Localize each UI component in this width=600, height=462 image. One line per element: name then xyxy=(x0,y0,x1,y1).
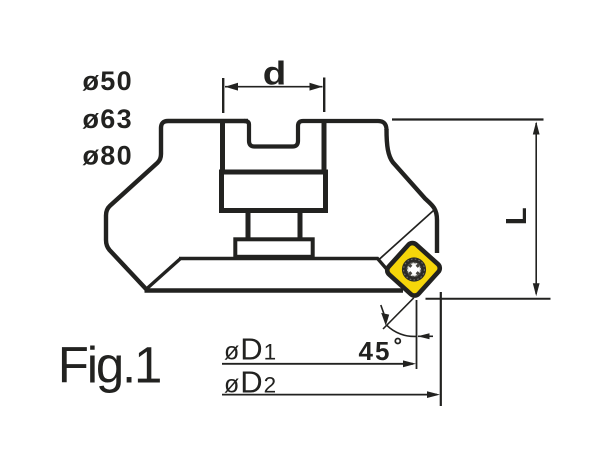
cutter body outer profile left xyxy=(106,121,248,290)
insert pocket thin diagonal xyxy=(379,211,434,260)
dimension d: left arrow xyxy=(225,83,238,91)
dimension d: right arrow xyxy=(310,83,323,91)
insert Q1 (yellow square insert) xyxy=(385,241,442,298)
dimension D2: extension line xyxy=(440,292,442,406)
svg-text:Fig.1: Fig.1 xyxy=(58,337,160,394)
dimension D1: arrow xyxy=(403,360,416,367)
svg-text:d: d xyxy=(263,54,287,92)
bore wall right xyxy=(322,121,327,172)
45 degree arc left arrow tail xyxy=(381,305,384,314)
washer rectangle xyxy=(235,239,312,256)
dimension L: top arrow xyxy=(533,122,540,135)
45 degree arc right arrow xyxy=(418,333,430,339)
arbor flange rectangle xyxy=(222,172,326,211)
cutter body outer profile right (S-curve to vertical edge) xyxy=(387,129,438,253)
front face inner line xyxy=(179,259,387,270)
45 degree arc right arrow tail xyxy=(418,335,433,337)
dimension d: dimension line xyxy=(225,86,323,88)
dimension L: top extension line xyxy=(392,118,544,120)
svg-text:ø50: ø50 xyxy=(83,66,134,96)
dimension D1: extension line xyxy=(416,300,418,369)
dimension L: dimension line xyxy=(535,123,537,294)
bore wall left xyxy=(220,121,225,172)
45 degree arc xyxy=(387,325,417,336)
degree symbol xyxy=(395,339,400,344)
bottom edge (outer diameter face) xyxy=(145,288,404,292)
dimension D1: dimension line xyxy=(222,363,413,365)
svg-text:ø63: ø63 xyxy=(83,104,134,134)
dimension d: left extension line xyxy=(222,78,224,113)
45 degree leader diagonal xyxy=(383,298,414,329)
svg-text:L: L xyxy=(501,207,533,225)
neck right line xyxy=(298,211,303,240)
svg-text:ø80: ø80 xyxy=(83,141,134,171)
dimension D2: dimension line xyxy=(222,394,437,396)
dimension L: bottom arrow xyxy=(533,283,540,296)
svg-text:45: 45 xyxy=(359,336,392,366)
dimension D2: arrow xyxy=(427,391,440,398)
insert clamp screw xyxy=(402,257,426,281)
dimension d: right extension line xyxy=(323,78,325,113)
45 degree arc left arrow xyxy=(381,313,389,326)
cutter body top edge with central notch xyxy=(244,121,387,147)
dimension L: bottom extension line xyxy=(426,298,551,300)
neck left line xyxy=(246,211,251,240)
front face wedge diagonal xyxy=(147,259,180,289)
